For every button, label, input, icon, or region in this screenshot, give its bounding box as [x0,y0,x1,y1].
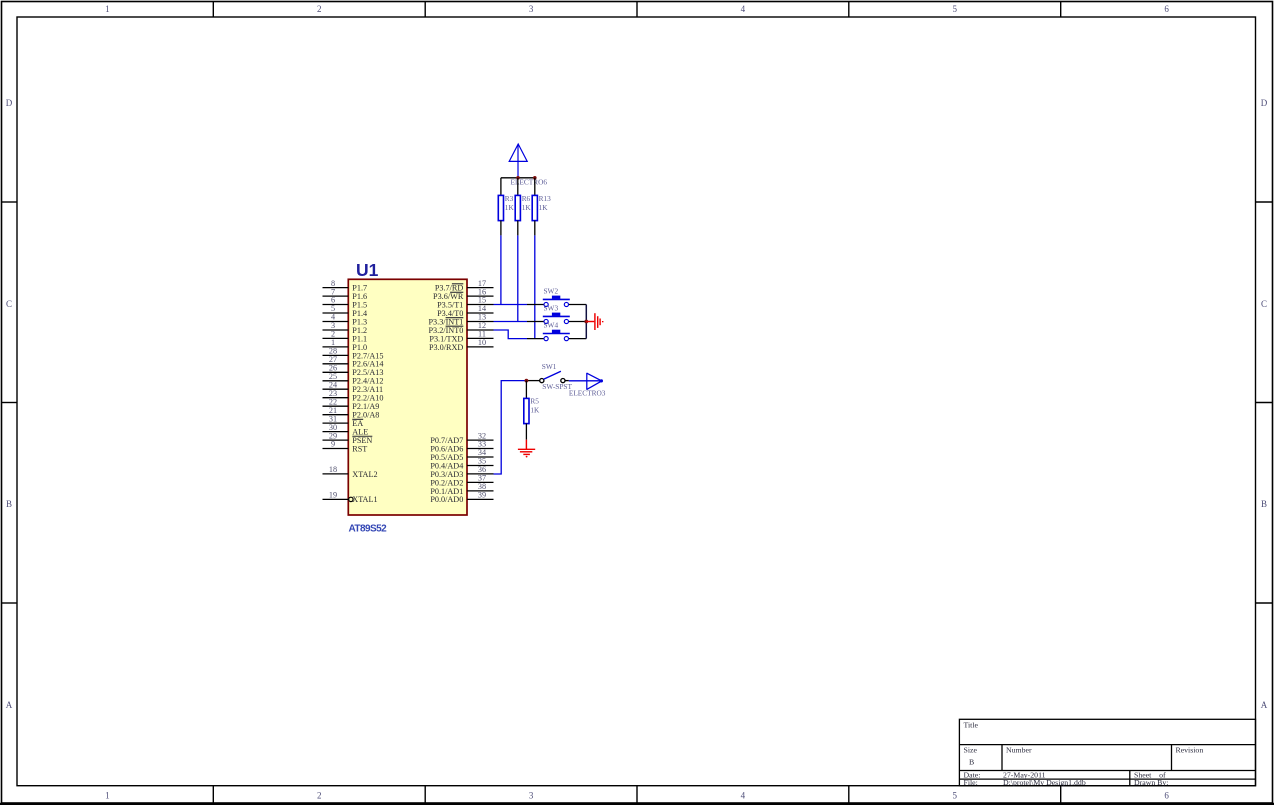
svg-text:3: 3 [529,4,534,14]
svg-text:ELECTRO6: ELECTRO6 [511,178,548,187]
U1 pin 5 P1.4 [323,304,368,318]
switch SW1 SW-SPST [526,362,572,391]
resistor R6 1K [515,178,531,236]
ground (earth) below R5 [518,440,535,455]
net label ELECTRO6 [511,178,548,187]
svg-text:Size: Size [964,746,978,755]
U1 pin 17 P3.7/RD [435,279,494,293]
wire R6 bottom to SW3 row / pin13 [517,235,519,321]
svg-text:XTAL1: XTAL1 [352,495,377,504]
U1 pin 30 ALE [323,423,369,437]
wire pin15 P3.5/T1 to SW2 [494,304,528,306]
svg-text:ELECTRO3: ELECTRO3 [569,388,606,397]
wire pin13 P3.3/INT1 to SW3 [494,321,528,323]
svg-text:5: 5 [952,4,957,14]
U1 pin 2 P1.1 [323,330,368,344]
wire pin12 P3.2/INT0 to SW4 (stepped) [494,330,528,339]
svg-text:C: C [1261,299,1267,309]
ground (signal ground, rotated) at switch bus [586,313,602,330]
svg-text:SW4: SW4 [544,320,559,329]
svg-text:1K: 1K [530,405,540,414]
wire R3 bottom to SW2 row / pin15 [500,235,502,304]
U1 pin 12 P3.2/INT0 [429,321,494,335]
junction at power/R6 [516,176,520,180]
svg-text:D: D [6,98,13,108]
resistor R13 1K [532,178,551,236]
resistor R3 1K [498,178,514,236]
U1 pin 7 P1.6 [323,287,368,301]
svg-text:R5: R5 [530,397,539,406]
svg-text:B: B [1261,499,1267,509]
U1 pin 35 P0.4/AD4 [430,457,493,471]
U1 pin 15 P3.5/T1 [437,296,493,310]
U1 pin 27 P2.6/A14 [323,355,384,369]
U1 pin 29 PSEN [323,431,373,445]
svg-text:Drawn By:: Drawn By: [1134,778,1168,787]
U1 pin 6 P1.5 [323,296,368,310]
svg-text:6: 6 [1164,791,1169,801]
svg-text:C: C [6,299,12,309]
U1 pin 28 P2.7/A15 [323,347,384,361]
svg-text:1K: 1K [522,203,532,212]
svg-text:1: 1 [105,791,110,801]
junction at switch bus / ground [584,320,588,324]
switch SW4 push button [527,320,586,340]
svg-text:1K: 1K [505,203,515,212]
U1 pin 37 P0.2/AD2 [430,474,493,488]
U1 pin 26 P2.5/A13 [323,364,384,378]
U1 designator label [356,260,379,280]
U1 pin 32 P0.7/AD7 [430,431,493,445]
switch SW3 push button [527,303,586,323]
svg-text:D:\protel\My Design1.ddb: D:\protel\My Design1.ddb [1003,778,1086,787]
svg-text:3: 3 [529,791,534,801]
svg-text:39: 39 [478,491,486,500]
svg-text:R3: R3 [505,194,514,203]
svg-text:4: 4 [741,791,746,801]
U1 pin 1 P1.0 [323,338,368,352]
svg-text:R6: R6 [522,194,531,203]
wire R13 bottom to SW4 row [534,235,536,338]
svg-text:U1: U1 [356,260,379,280]
svg-text:4: 4 [741,4,746,14]
U1 pin 23 P2.2/A10 [323,389,384,403]
svg-text:A: A [1261,700,1268,710]
svg-text:R13: R13 [539,194,552,203]
net label ELECTRO3 [569,388,606,397]
U1 pin 10 P3.0/RXD [429,338,494,352]
U1 pin 19 XTAL1 [323,491,378,505]
U1 pin 24 P2.3/A11 [323,380,384,394]
svg-text:10: 10 [478,338,486,347]
U1 pin 14 P3.4/T0 [437,304,493,318]
U1 pin 31 EA [323,414,364,428]
U1 pin 39 P0.0/AD0 [430,491,493,505]
svg-text:1: 1 [105,4,110,14]
wire pin36 P0.3/AD3 to SW1 junction (stepped) [494,381,527,474]
switch SW2 push button [527,286,586,306]
svg-text:19: 19 [329,491,337,500]
U1 pin 3 P1.2 [323,321,368,335]
U1 pin 16 P3.6/WR [433,287,493,301]
IC U1 AT89S52 body [348,279,467,515]
svg-text:AT89S52: AT89S52 [349,524,388,535]
U1 pin 13 P3.3/INT1 [429,313,494,327]
svg-text:A: A [6,700,13,710]
svg-text:18: 18 [329,465,337,474]
wire: vertical bus right of SW2/SW3/SW4 [585,305,587,339]
power symbol ELECTRO6 (arrow up) [509,144,527,178]
U1 pin 8 P1.7 [323,279,368,293]
svg-text:B: B [969,758,974,767]
power port ELECTRO3 (arrow right) [587,373,602,390]
svg-text:2: 2 [317,4,322,14]
svg-text:Number: Number [1006,746,1032,755]
U1 pin 11 P3.1/TXD [429,330,493,344]
U1 pin 36 P0.3/AD3 [430,465,493,479]
svg-text:SW2: SW2 [544,286,559,295]
svg-text:RST: RST [352,444,367,453]
junction at SW1 input [525,379,529,383]
U1 pin 34 P0.5/AD5 [430,448,493,462]
junction at R13 top [533,176,537,180]
svg-text:SW1: SW1 [542,362,557,371]
svg-text:SW3: SW3 [544,303,559,312]
svg-text:File:: File: [964,778,978,787]
wire SW1 output to ELECTRO3 [569,380,602,382]
svg-text:Title: Title [964,721,979,730]
svg-text:6: 6 [1164,4,1169,14]
svg-text:D: D [1261,98,1268,108]
svg-text:P3.0/RXD: P3.0/RXD [429,343,463,352]
U1 part type AT89S52 [349,524,388,535]
U1 pin 22 P2.1/A9 [323,397,380,411]
svg-text:P0.0/AD0: P0.0/AD0 [430,495,463,504]
svg-text:9: 9 [331,440,335,449]
U1 pin 4 P1.3 [323,313,368,327]
svg-text:1K: 1K [539,203,549,212]
U1 pin 38 P0.1/AD1 [430,482,493,496]
U1 pin 18 XTAL2 [323,465,378,479]
svg-text:XTAL2: XTAL2 [352,470,377,479]
resistor R5 1K [524,381,540,440]
wire: top bus connecting R3/R6/R13 tops [501,177,535,179]
svg-text:B: B [6,499,12,509]
title block [959,719,1255,785]
U1 pin 25 P2.4/A12 [323,372,384,386]
svg-text:Revision: Revision [1176,746,1204,755]
U1 pin 9 RST [323,440,368,454]
U1 pin 33 P0.6/AD6 [430,440,493,454]
svg-text:2: 2 [317,791,322,801]
svg-text:5: 5 [952,791,957,801]
U1 pin 21 P2.0/A8 [323,406,380,420]
